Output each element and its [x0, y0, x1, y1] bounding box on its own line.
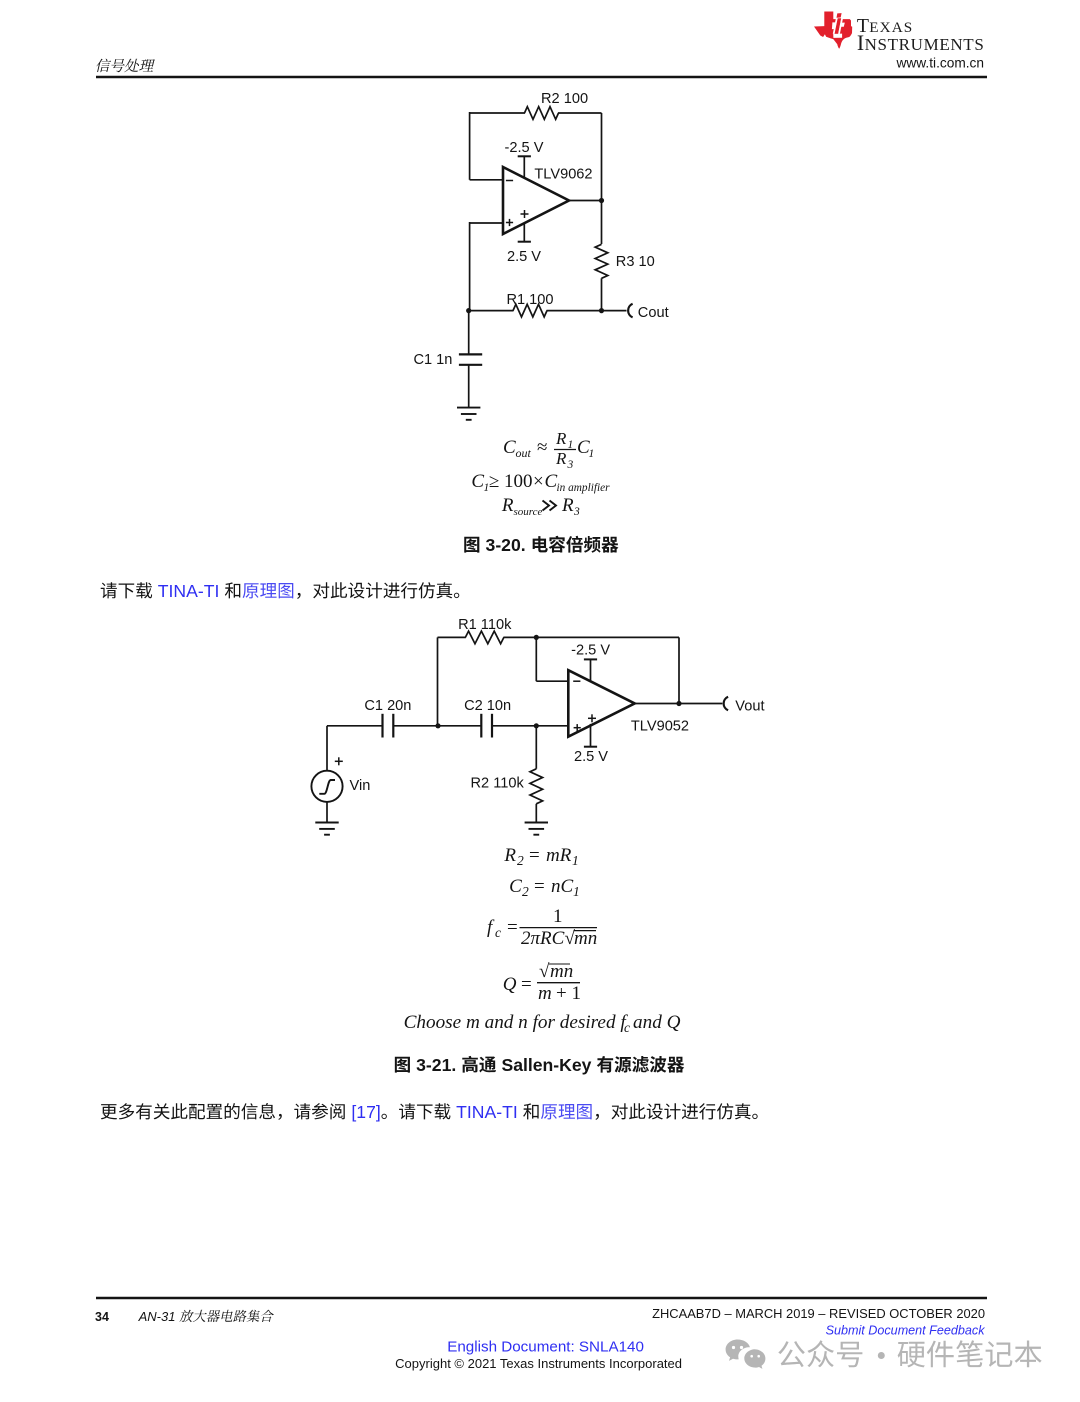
resistor R2 — [530, 769, 543, 804]
wire node to C1 — [468, 311, 470, 355]
svg-text:34: 34 — [95, 1310, 109, 1324]
wire right vertical to output — [678, 637, 680, 703]
svg-text:3-20.: 3-20. — [486, 535, 526, 555]
svg-text:√: √ — [539, 961, 550, 982]
wire R2 to top-right — [558, 112, 602, 114]
TI logo red Texas symbol — [814, 12, 852, 49]
capacitor C2 — [481, 714, 492, 738]
svg-text:TLV9062: TLV9062 — [534, 167, 592, 183]
svg-text:English Document: SNLA140: English Document: SNLA140 — [447, 1339, 644, 1356]
wire C1 to C2 — [393, 725, 481, 727]
junction C1 node — [466, 308, 471, 313]
negative supply bar — [584, 658, 597, 660]
wire node to R2 — [535, 726, 537, 769]
wire op-amp to positive supply — [590, 724, 592, 747]
svg-text:and Q: and Q — [633, 1012, 681, 1033]
junction output node — [676, 701, 681, 706]
note Choose m and n for desired fc and Q — [404, 1012, 681, 1035]
wire left vertical to inverting input — [469, 112, 471, 180]
svg-text:R3 10: R3 10 — [616, 254, 655, 270]
svg-text:Q: Q — [503, 974, 517, 995]
Vin polarity marker — [335, 757, 343, 765]
wire R1 to output node — [547, 310, 602, 312]
svg-text:R: R — [555, 449, 567, 468]
svg-text:2.5 V: 2.5 V — [574, 749, 608, 765]
caption 图 3-21. 高通 Sallen-Key 有源滤波器 — [395, 1057, 410, 1073]
svg-text:www.ti.com.cn: www.ti.com.cn — [896, 56, 984, 71]
terminal Cout — [628, 304, 632, 318]
resistor R1 — [513, 304, 547, 317]
op-amp inverting input marker — [573, 680, 580, 682]
svg-text:R: R — [503, 845, 516, 866]
resistor R2 — [525, 107, 559, 120]
svg-text:=: = — [521, 974, 532, 995]
svg-text:R: R — [555, 429, 567, 448]
wire to Cout terminal — [602, 310, 627, 312]
wire right vertical — [601, 113, 603, 244]
svg-text:1: 1 — [572, 853, 579, 868]
paragraph: 更多有关此配置的信息，请参阅 [17]。请下载 TINA-TI 和原理图，对此设计进行仿真。 — [101, 1103, 345, 1120]
wire R3 to bottom node — [601, 278, 603, 310]
svg-text:R: R — [561, 495, 574, 516]
svg-text:mR: mR — [546, 845, 572, 866]
svg-text:1: 1 — [573, 884, 580, 899]
wire feedback down — [535, 637, 537, 681]
wire Vin top — [326, 726, 328, 771]
svg-text:2.5 V: 2.5 V — [507, 249, 541, 265]
svg-text:C2 10n: C2 10n — [464, 698, 511, 714]
wire to op-amp inverting input — [470, 179, 503, 181]
svg-text:EXAS: EXAS — [869, 19, 913, 36]
svg-text:=: = — [507, 917, 518, 938]
svg-text:100: 100 — [504, 471, 533, 492]
svg-text:Submit Document Feedback: Submit Document Feedback — [826, 1324, 986, 1338]
watermark WeChat icon — [726, 1340, 750, 1361]
svg-text:c: c — [624, 1020, 630, 1035]
svg-text:2: 2 — [522, 884, 529, 899]
footer doc title 放大器电路集合 — [179, 1310, 273, 1322]
wire op-amp output — [569, 200, 602, 202]
svg-text:R1 100: R1 100 — [506, 292, 553, 308]
svg-text:Vout: Vout — [735, 698, 764, 714]
wire C1 to ground — [468, 365, 470, 408]
svg-text:Copyright © 2021 Texas Instrum: Copyright © 2021 Texas Instruments Incor… — [395, 1356, 682, 1371]
svg-text:Vin: Vin — [350, 778, 371, 794]
resistor R1 — [465, 631, 504, 644]
svg-text:source: source — [514, 506, 543, 518]
wire left vertical R1 branch — [437, 637, 439, 725]
wire negative supply to op-amp — [523, 156, 525, 178]
svg-text:R2 110k: R2 110k — [471, 776, 525, 792]
svg-text:TINA-TI: TINA-TI — [456, 1102, 518, 1122]
svg-text:NSTRUMENTS: NSTRUMENTS — [865, 35, 985, 54]
junction R2 node — [534, 723, 539, 728]
wire op-amp output to Vout — [635, 703, 723, 705]
wire negative supply to op-amp — [590, 659, 592, 681]
wire R2 to ground — [535, 804, 537, 823]
op-amp inverting input marker — [506, 180, 513, 182]
footer rule — [96, 1297, 987, 1299]
svg-text:3-21.: 3-21. — [416, 1055, 456, 1075]
op-amp positive supply marker — [588, 714, 596, 722]
wire left vertical to C1 node — [469, 222, 471, 311]
svg-text:1: 1 — [553, 906, 563, 927]
negative supply bar — [518, 155, 531, 157]
wire node to R1 — [469, 310, 514, 312]
svg-text:R1 110k: R1 110k — [458, 617, 512, 633]
svg-text:C1 20n: C1 20n — [364, 698, 411, 714]
svg-text:TLV9052: TLV9052 — [631, 719, 689, 735]
wire Vin to C1 — [327, 725, 383, 727]
svg-text:out: out — [516, 446, 532, 460]
svg-text:=: = — [529, 845, 540, 866]
terminal Vout — [724, 697, 728, 711]
svg-text:-2.5 V: -2.5 V — [505, 140, 544, 156]
junction R1 feedback node — [534, 635, 539, 640]
svg-text:nC: nC — [551, 876, 574, 897]
capacitor C1 — [383, 714, 394, 738]
caption 图 3-20. 电容倍频器 — [464, 537, 479, 553]
ground below R2 — [525, 823, 548, 835]
svg-text:R: R — [501, 495, 514, 516]
svg-text:C1 1n: C1 1n — [413, 352, 452, 368]
svg-text:[17]: [17] — [351, 1102, 380, 1122]
svg-text:in amplifier: in amplifier — [557, 482, 611, 494]
svg-text:×: × — [533, 471, 544, 492]
wire Vin to ground — [326, 802, 328, 823]
svg-text:2πRC: 2πRC — [521, 928, 565, 949]
op-amp non-inverting input marker — [574, 724, 581, 731]
svg-text:m: m — [538, 983, 552, 1004]
formula R2 = mR1 — [503, 845, 578, 868]
paragraph: 请下载 TINA-TI 和原理图，对此设计进行仿真。 — [101, 582, 152, 598]
wire to op-amp inverting input — [536, 680, 568, 682]
svg-text:I: I — [857, 31, 864, 55]
formula C1 ≥ 100 × Cin amplifier — [471, 471, 610, 494]
svg-text:≈: ≈ — [537, 437, 547, 458]
positive supply bar — [518, 241, 531, 243]
op-amp positive supply marker — [521, 210, 529, 218]
wire op-amp to positive supply — [523, 223, 525, 242]
svg-text:=: = — [534, 876, 545, 897]
wire top-left to R2 — [470, 112, 525, 114]
svg-text:R2 100: R2 100 — [541, 91, 588, 107]
wire to op-amp non-inverting input — [470, 222, 503, 224]
ground — [457, 408, 480, 420]
wire C2 to op-amp non-inverting input — [492, 725, 568, 727]
svg-text:c: c — [495, 925, 501, 940]
svg-text:C: C — [503, 437, 516, 458]
ground below Vin — [315, 823, 338, 835]
op-amp U2 TLV9052 — [568, 670, 634, 737]
svg-text:2: 2 — [517, 853, 524, 868]
svg-text:1: 1 — [589, 448, 595, 460]
svg-text:≥: ≥ — [489, 471, 499, 492]
voltage source Vin — [311, 771, 342, 802]
svg-text:+ 1: + 1 — [556, 983, 581, 1004]
formula fc = 1/(2πRC√mn) — [487, 906, 597, 949]
svg-text:Sallen-Key: Sallen-Key — [501, 1055, 591, 1075]
wire top-left to R1 — [438, 636, 466, 638]
op-amp U1 TLV9062 — [503, 167, 569, 234]
svg-text:C: C — [471, 471, 484, 492]
svg-text:3: 3 — [573, 506, 580, 518]
capacitor C1 — [459, 354, 482, 364]
wire R1 to top-right — [503, 636, 679, 638]
formula Rsource ≫ R3 — [501, 495, 580, 518]
formula Q = √mn/(m+1) — [503, 961, 581, 1004]
resistor R3 — [595, 244, 608, 278]
positive supply bar — [584, 746, 597, 748]
svg-text:ZHCAAB7D – MARCH 2019 – RE: ZHCAAB7D – MARCH 2019 – REVISED OCTOBER … — [652, 1306, 985, 1321]
junction C1-C2 node — [435, 723, 440, 728]
formula C2 = nC1 — [509, 876, 580, 899]
watermark text 公众号 · 硬件笔记本 — [778, 1340, 862, 1367]
junction output node — [599, 198, 604, 203]
svg-text:3: 3 — [567, 459, 574, 471]
svg-text:-2.5 V: -2.5 V — [571, 643, 610, 659]
svg-text:AN-31: AN-31 — [138, 1309, 176, 1324]
op-amp non-inverting input marker — [506, 219, 513, 226]
header rule — [96, 76, 987, 78]
svg-text:Choose m and n for desired f: Choose m and n for desired f — [404, 1012, 629, 1033]
header category label 信号处理 — [96, 59, 155, 73]
svg-text:TINA-TI: TINA-TI — [158, 581, 220, 601]
formula Cout ≈ R1/R3 C1 — [503, 429, 594, 471]
svg-text:Cout: Cout — [638, 305, 669, 321]
svg-text:C: C — [509, 876, 522, 897]
junction Cout node — [599, 308, 604, 313]
